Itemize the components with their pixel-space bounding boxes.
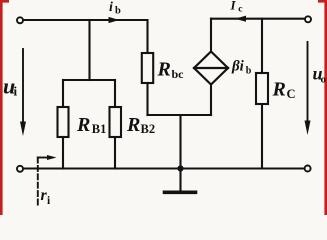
svg-text:R: R	[126, 114, 140, 136]
svg-text:βi: βi	[231, 59, 245, 75]
svg-text:o: o	[321, 74, 327, 86]
svg-text:R: R	[157, 59, 171, 81]
svg-text:R: R	[76, 114, 90, 136]
svg-text:b: b	[246, 66, 252, 77]
svg-text:i: i	[14, 84, 18, 99]
svg-text:C: C	[287, 87, 296, 101]
svg-text:i: i	[109, 0, 113, 15]
svg-text:B2: B2	[141, 122, 156, 136]
svg-text:R: R	[272, 79, 286, 101]
svg-text:I: I	[230, 0, 237, 13]
svg-text:B1: B1	[92, 122, 107, 136]
svg-text:b: b	[115, 6, 121, 17]
svg-text:bc: bc	[172, 67, 185, 81]
svg-text:c: c	[238, 5, 242, 15]
